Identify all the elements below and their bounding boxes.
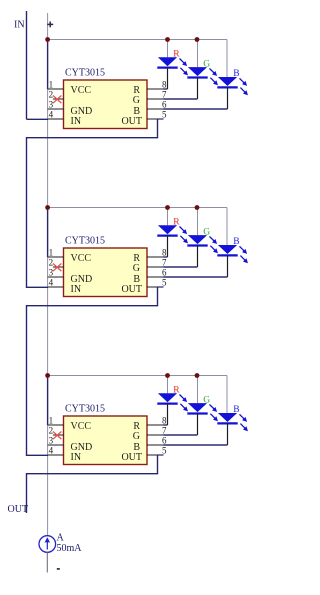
svg-text:50mA: 50mA xyxy=(57,543,83,554)
svg-text:7: 7 xyxy=(162,258,167,268)
svg-text:VCC: VCC xyxy=(71,421,92,432)
svg-text:6: 6 xyxy=(162,268,167,278)
svg-text:CYT3015: CYT3015 xyxy=(65,236,105,247)
svg-text:3: 3 xyxy=(49,100,54,110)
svg-text:G: G xyxy=(133,431,140,442)
svg-text:2: 2 xyxy=(49,426,54,436)
svg-text:OUT: OUT xyxy=(121,284,142,295)
svg-text:1: 1 xyxy=(49,80,54,90)
svg-text:B: B xyxy=(233,405,239,415)
svg-text:4: 4 xyxy=(49,446,54,456)
svg-text:5: 5 xyxy=(162,110,167,120)
svg-text:OUT: OUT xyxy=(8,504,29,515)
svg-text:R: R xyxy=(173,217,180,227)
svg-text:R: R xyxy=(173,385,180,395)
svg-text:OUT: OUT xyxy=(121,452,142,463)
svg-text:OUT: OUT xyxy=(121,116,142,127)
svg-text:4: 4 xyxy=(49,110,54,120)
svg-text:6: 6 xyxy=(162,100,167,110)
svg-text:IN: IN xyxy=(14,20,25,31)
svg-text:6: 6 xyxy=(162,436,167,446)
svg-text:IN: IN xyxy=(71,284,82,295)
svg-text:4: 4 xyxy=(49,278,54,288)
svg-text:5: 5 xyxy=(162,446,167,456)
svg-text:IN: IN xyxy=(71,452,82,463)
svg-text:3: 3 xyxy=(49,268,54,278)
svg-text:8: 8 xyxy=(162,248,167,258)
svg-text:G: G xyxy=(203,227,210,237)
svg-text:R: R xyxy=(173,49,180,59)
svg-text:B: B xyxy=(233,69,239,79)
svg-text:CYT3015: CYT3015 xyxy=(65,68,105,79)
svg-text:3: 3 xyxy=(49,436,54,446)
svg-text:8: 8 xyxy=(162,416,167,426)
svg-text:1: 1 xyxy=(49,248,54,258)
svg-text:A: A xyxy=(57,533,65,544)
svg-text:CYT3015: CYT3015 xyxy=(65,404,105,415)
svg-text:G: G xyxy=(133,263,140,274)
svg-text:IN: IN xyxy=(71,116,82,127)
svg-text:7: 7 xyxy=(162,90,167,100)
svg-text:G: G xyxy=(203,59,210,69)
svg-text:G: G xyxy=(203,395,210,405)
svg-text:VCC: VCC xyxy=(71,253,92,264)
svg-text:2: 2 xyxy=(49,258,54,268)
svg-text:1: 1 xyxy=(49,416,54,426)
svg-text:2: 2 xyxy=(49,90,54,100)
svg-text:G: G xyxy=(133,95,140,106)
svg-text:VCC: VCC xyxy=(71,85,92,96)
svg-text:8: 8 xyxy=(162,80,167,90)
svg-text:5: 5 xyxy=(162,278,167,288)
svg-text:B: B xyxy=(233,237,239,247)
svg-text:7: 7 xyxy=(162,426,167,436)
